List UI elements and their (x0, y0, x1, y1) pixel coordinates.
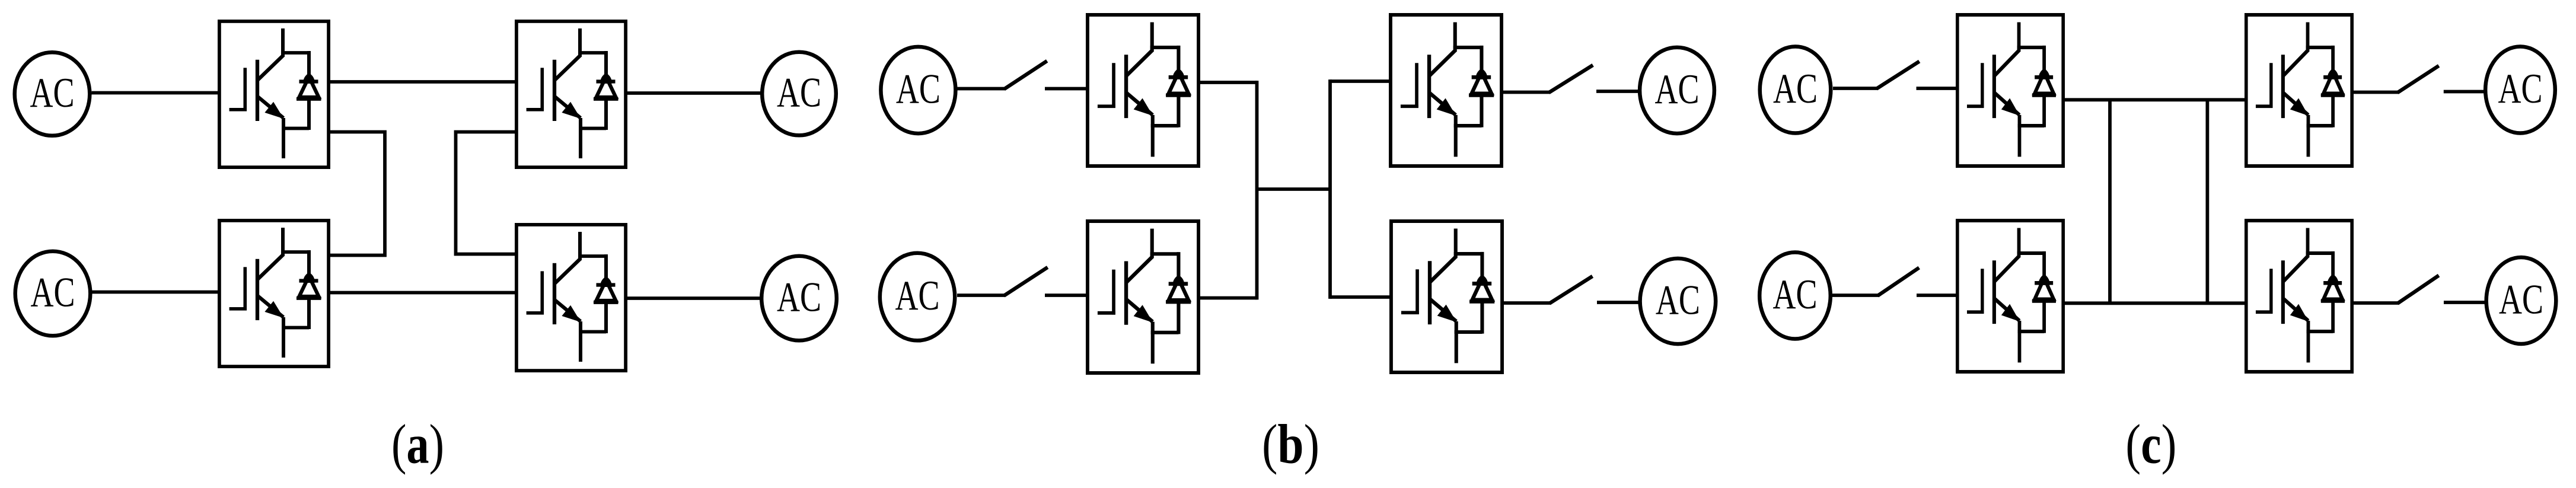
AC source b4 (bottom-right) (1640, 259, 1716, 344)
switch S6 blade (c bottom-left) (1879, 269, 1918, 295)
wire S3-b2 (1596, 90, 1638, 93)
wire b dc-bus left vertical (1255, 81, 1259, 299)
wire a3-A3 (91, 291, 218, 294)
svg-text:AC: AC (1773, 272, 1818, 318)
svg-text:AC: AC (777, 275, 821, 321)
svg-text:AC: AC (1773, 66, 1818, 112)
svg-text:(a): (a) (391, 414, 444, 476)
wire bus-B3 (1330, 79, 1389, 83)
wire C2-C4 bottom link (2065, 301, 2245, 305)
converter cell C2 (c bottom-left) (1957, 221, 2063, 372)
switch S8 blade (c bottom-right) (2399, 276, 2437, 302)
svg-text:(c): (c) (2125, 414, 2176, 476)
AC source a3 (bottom-left) (15, 251, 91, 336)
converter cell A2 (a top-right) (517, 21, 626, 167)
wire B4-switch S4 (1503, 301, 1551, 305)
wire b1-switch S1 (958, 87, 1006, 91)
AC source b2 (top-right) (1640, 47, 1714, 133)
wire b dc-bus middle jog (1257, 187, 1331, 191)
switch S3 blade (b top-right) (1551, 66, 1592, 92)
wire c dc-bus right vertical (2205, 100, 2209, 303)
svg-text:AC: AC (2498, 66, 2543, 112)
AC source c4 (bottom-right) (2486, 257, 2556, 344)
AC source b3 (bottom-left) (880, 253, 955, 341)
svg-text:AC: AC (1655, 66, 1700, 113)
svg-text:AC: AC (1656, 278, 1700, 324)
wire C3-switch S7 (2354, 91, 2399, 94)
wire S6-C2 (1917, 294, 1956, 297)
converter cell C3 (c top-right) (2246, 15, 2352, 166)
wire b3-switch S2 (957, 294, 1005, 297)
AC source a2 (top-right) (762, 52, 836, 136)
converter cell A3 (a bottom-left) (219, 221, 329, 366)
converter cell B3 (b top-right) (1391, 15, 1501, 166)
svg-text:AC: AC (31, 270, 75, 316)
wire A2-A4 crossover (456, 132, 515, 254)
wire bus-B4 (1330, 295, 1389, 299)
wire S1-B1 (1045, 87, 1086, 91)
switch S5 blade (c top-left) (1878, 62, 1918, 88)
AC source c2 (top-right) (2485, 47, 2555, 133)
wire A2-a2 (627, 91, 761, 95)
switch S4 blade (b bottom-right) (1551, 278, 1591, 303)
wire C1-C3 top link (2065, 98, 2245, 101)
wire S5-C1 (1917, 87, 1956, 90)
AC source c3 (bottom-left) (1759, 253, 1831, 339)
wire A3-A4 bottom link (330, 291, 515, 295)
wire b dc-bus right vertical (1328, 79, 1332, 299)
converter cell A4 (a bottom-right) (517, 225, 626, 371)
AC source a1 (top-left) (15, 52, 90, 136)
converter cell B2 (b bottom-left) (1088, 221, 1198, 373)
wire S4-b4 (1597, 301, 1639, 304)
svg-text:AC: AC (896, 66, 941, 113)
wire S2-B2 (1045, 294, 1086, 297)
switch S7 blade (c top-right) (2399, 67, 2437, 92)
wire A1-A2 top link (330, 80, 515, 84)
AC source b1 (top-left) (881, 47, 955, 133)
converter cell C1 (c top-left) (1957, 15, 2063, 166)
converter cell B4 (b bottom-right) (1391, 221, 1502, 372)
wire C4-switch S8 (2354, 301, 2399, 305)
switch S2 blade (b bottom-left) (1006, 269, 1046, 295)
svg-text:AC: AC (30, 70, 75, 116)
svg-text:AC: AC (777, 70, 821, 116)
wire A1-A3 crossover (330, 132, 385, 256)
wire B1 right port (1200, 81, 1257, 84)
converter cell C4 (c bottom-right) (2246, 221, 2352, 372)
wire c3-switch S6 (1832, 294, 1879, 297)
wire B3-switch S3 (1503, 91, 1550, 94)
wire c1-switch S5 (1833, 87, 1877, 90)
switch S1 blade (b top-left) (1006, 62, 1045, 88)
wire B2 right port (1200, 296, 1257, 300)
svg-text:(b): (b) (1262, 414, 1319, 476)
converter cell B1 (b top-left) (1088, 15, 1198, 166)
converter cell A1 (a top-left) (219, 21, 329, 167)
wire A4-a4 (627, 296, 760, 300)
svg-text:AC: AC (895, 273, 940, 319)
AC source c1 (top-left) (1760, 47, 1831, 133)
wire c dc-bus left vertical (2108, 100, 2112, 303)
wire S8-c4 (2444, 301, 2485, 304)
wire S7-c2 (2444, 90, 2484, 94)
AC source a4 (bottom-right) (761, 256, 837, 341)
wire a1-A1 (92, 91, 218, 95)
svg-text:AC: AC (2499, 277, 2543, 323)
